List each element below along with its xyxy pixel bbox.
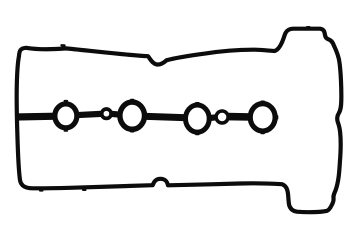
circle 3 bbox=[186, 105, 210, 132]
tiny nub on circle 3 rim top bbox=[196, 102, 199, 104]
band bar 1 (left edge to circle 1) bbox=[15, 113, 57, 121]
tiny nub on circle 4 rim top bbox=[261, 100, 264, 102]
tiny nub on circle 2 rim top bbox=[131, 99, 134, 101]
small circle 1 bbox=[102, 109, 111, 118]
tiny nub on circle 3 rim bottom bbox=[196, 133, 199, 135]
tiny nub below bottom edge x=84 bbox=[83, 189, 86, 191]
tiny nub on circle 4 rim right bbox=[277, 116, 279, 119]
tiny nub on circle 1 rim top bbox=[64, 100, 67, 102]
small circle 2 bbox=[216, 111, 228, 123]
band bar 2 bbox=[75, 114, 101, 115]
gasket outer outline bbox=[17, 29, 342, 212]
tiny nub on circle 2 rim bottom bbox=[131, 131, 134, 133]
band bar 4 bbox=[143, 116, 187, 117]
circle 4 bbox=[250, 104, 275, 131]
tiny nub on circle 1 rim bottom bbox=[64, 130, 67, 132]
tiny nub below bottom edge x=41 bbox=[40, 190, 43, 192]
band bar 6 bbox=[227, 113, 252, 121]
band bar 3 bbox=[112, 111, 122, 118]
tiny nub on step top x=308 bbox=[307, 26, 310, 28]
circle 1 bbox=[55, 104, 77, 128]
band bar 5 bbox=[208, 117, 218, 118]
tiny nub on circle 4 rim bottom bbox=[261, 132, 264, 134]
circle 2 bbox=[120, 102, 145, 129]
tiny nub on top edge near x=63 bbox=[62, 44, 65, 47]
